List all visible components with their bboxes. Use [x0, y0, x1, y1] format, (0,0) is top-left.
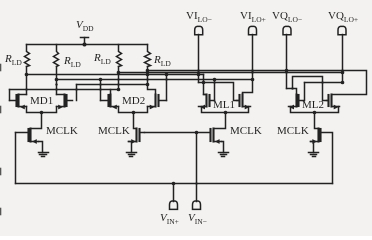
node bus-E tap res4 drain	[146, 83, 150, 87]
node ML2 gate link tap on VQlo+ stem	[341, 81, 345, 85]
wire MCLK4 gate riser to Vin+ rail	[321, 133, 333, 184]
wire Vin+ stem	[173, 184, 175, 202]
wire bus net I-	[57, 79, 253, 81]
transistor MCLK1	[16, 129, 39, 144]
node bus-C tap res3	[117, 71, 121, 75]
port VQlo+ pad	[338, 26, 346, 34]
wire bus net I+	[27, 74, 204, 76]
wire Vin- stem	[196, 133, 198, 202]
ground MCLK4	[309, 153, 319, 157]
node Vin- gate junction	[195, 131, 199, 135]
label RLD4	[154, 55, 171, 68]
wire MD2 common source	[119, 107, 148, 113]
node ML1 tail	[224, 111, 228, 115]
wire MD1 tail to MCLK1 drain	[31, 113, 42, 129]
node bus-B tap ML1 left gate	[213, 78, 217, 82]
wire res1 to MD1 left drain	[26, 67, 28, 95]
wire VIlo- stem	[198, 35, 200, 83]
wire bus net Q- with wrap to ML2 right drain	[148, 71, 367, 95]
transistor MD1 left	[10, 95, 27, 110]
wire MD2 left gate riser	[100, 80, 102, 101]
node ML2 tail	[313, 111, 317, 115]
wire Vin+ rail	[16, 183, 333, 185]
resistor RLD3	[117, 45, 122, 67]
wire MD1 left gate coupling link	[10, 89, 111, 91]
wire ML2 common source	[291, 107, 339, 113]
wire MD2 right gate riser	[166, 75, 168, 101]
transistor ML1 left	[199, 95, 215, 110]
node MD2 tail	[132, 111, 136, 115]
node MD2 left drain corner	[117, 88, 121, 92]
node VQlo+ on bus C	[341, 71, 345, 75]
wire VQlo+ stem	[342, 35, 344, 83]
label ML2	[302, 100, 324, 111]
transistor MD1 right	[57, 95, 73, 110]
wire Vdd rail	[27, 44, 148, 46]
node bus-A crossing res4	[146, 73, 150, 77]
wire MD2 tail to MCLK2 drain	[134, 113, 137, 129]
transistor MD2 right	[148, 95, 167, 110]
wire VIlo+ stem	[243, 35, 253, 95]
transistor ML2 right	[327, 95, 340, 110]
transistor MCLK3	[211, 129, 222, 144]
ground MCLK1	[39, 153, 49, 157]
node ML1 drain link crossing	[202, 81, 206, 85]
wire crossing blobs	[25, 69, 344, 185]
transistor ML1 right	[237, 95, 251, 110]
resistor RLD1	[25, 45, 30, 67]
transistor MD2 left	[101, 95, 119, 110]
scan artifact left edge	[0, 65, 2, 215]
transistor MCLK4	[311, 129, 321, 144]
node bus-B tap MD2 left gate	[99, 78, 103, 82]
wire MCLK1 source to ground	[39, 142, 43, 153]
node MD1 tail	[40, 111, 44, 115]
resistor RLD4	[145, 45, 151, 67]
wire MCLK1 gate riser to Vin+ rail	[15, 133, 17, 184]
wire ML1 cross link	[199, 83, 240, 101]
label VIlo-	[186, 11, 212, 24]
port VIlo- pad	[195, 26, 203, 34]
transistor MCLK2	[129, 129, 145, 144]
label MCLK4	[277, 126, 309, 137]
wire bus MD1 right gate link	[77, 84, 148, 86]
port VQlo- pad	[283, 26, 291, 34]
node VQlo- on bus D	[285, 69, 289, 73]
wire bus net Q+	[119, 72, 343, 74]
label VQlo-	[272, 11, 302, 24]
label MD2	[122, 96, 145, 107]
Vdd supply symbol	[81, 38, 89, 45]
ground MCLK3	[219, 153, 229, 157]
label MCLK2	[98, 126, 130, 137]
label Vin+	[160, 213, 179, 226]
label MD1	[30, 96, 53, 107]
wire ML2 tail to MCLK4 drain	[315, 113, 319, 129]
node Vdd junction	[83, 43, 87, 47]
node VIlo+ on bus B	[251, 78, 255, 82]
wire VQlo- stem	[286, 35, 288, 89]
wire Vin- gate line	[145, 132, 211, 134]
wire ML1 left gate riser	[214, 80, 216, 101]
port VIlo+ pad	[249, 26, 257, 34]
wire MD1 left gate riser	[9, 90, 11, 101]
node bus-B tap res2	[55, 78, 59, 82]
node ML2 drain feed junction	[291, 87, 294, 90]
label MCLK1	[46, 126, 78, 137]
wire ML2 right gate link	[293, 77, 329, 101]
wire res3 to MD2 left drain	[111, 67, 119, 95]
wire MCLK2 source to ground	[129, 142, 132, 153]
wire ML1 common source	[202, 107, 249, 113]
wire MCLK4 source to ground	[311, 142, 314, 153]
wire MD1 common source	[27, 107, 57, 113]
resistor RLD2	[54, 45, 59, 67]
label ML1	[213, 100, 235, 111]
label Vdd	[76, 20, 94, 33]
port Vin+ pad	[170, 201, 178, 209]
wire res4 to MD2 right drain	[148, 67, 156, 95]
wire ML2 left drain feed	[287, 89, 297, 95]
wire ML2 gate link	[305, 82, 343, 84]
wire ML1 tail to MCLK3 drain	[214, 113, 226, 129]
label VQlo+	[328, 11, 358, 24]
label RLD3	[94, 53, 111, 66]
node bus-D tap res4	[146, 69, 150, 73]
wire ML1 left drain from bus	[204, 75, 207, 95]
wire res2 to MD1 right drain	[56, 67, 58, 95]
node Vin+ stem junction	[172, 182, 176, 186]
port Vin- pad	[193, 201, 201, 209]
label Vin-	[188, 213, 207, 226]
wire MCLK3 source to ground	[222, 142, 224, 153]
label VIlo+	[240, 11, 266, 24]
node bus-A tap res1	[25, 73, 29, 77]
transistor ML2 left	[289, 95, 304, 110]
label RLD1	[5, 54, 22, 67]
label MCLK3	[230, 126, 262, 137]
node VIlo- on bus A	[197, 73, 201, 77]
node bus-A tap MD2 right gate	[165, 73, 169, 77]
wire MD1 right gate riser	[76, 85, 78, 101]
ground MCLK2	[127, 153, 137, 157]
wire ML2 left gate riser	[304, 83, 306, 101]
label RLD2	[64, 56, 81, 69]
